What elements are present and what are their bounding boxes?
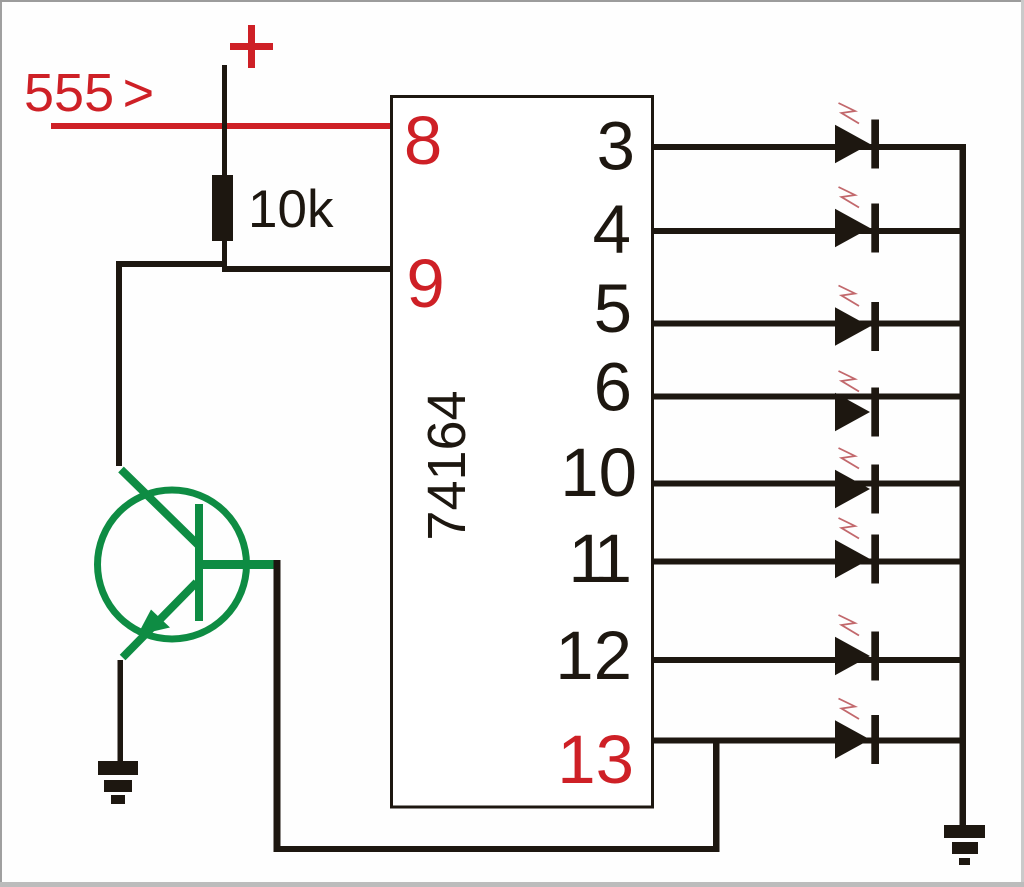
transistor Q1 emitter stroke: [123, 582, 197, 657]
transistor Q1 collector stroke: [121, 470, 198, 545]
transistor Q1 base bar: [195, 504, 203, 621]
wire pin 13: [652, 738, 960, 744]
svg-text:12: 12: [555, 617, 632, 694]
wire: common cathode bus: [960, 144, 967, 825]
border frame left: [0, 0, 2, 887]
wire: junction riser below pin 13: [713, 738, 720, 849]
wire: vertical down to collector: [116, 261, 122, 466]
svg-text:8: 8: [404, 102, 442, 179]
border frame bottom: [0, 882, 1024, 887]
wire pin 12: [652, 657, 960, 663]
wire pin 11: [652, 559, 960, 565]
wire pin 10: [652, 481, 960, 487]
svg-text:4: 4: [593, 191, 631, 268]
svg-text:3: 3: [597, 108, 635, 185]
resistor R1: [212, 175, 233, 241]
power + symbol: [230, 25, 273, 68]
wire: V+ to resistor top: [222, 65, 227, 178]
svg-text:13: 13: [557, 721, 634, 798]
ground (left): [98, 761, 138, 804]
wire: resistor bottom stub: [222, 241, 227, 272]
ground (right): [944, 825, 985, 865]
wire: node to transistor collector (horizontal): [116, 261, 227, 267]
svg-text:555: 555: [24, 63, 114, 123]
svg-text:74164: 74164: [417, 390, 477, 540]
wire pin 4: [652, 228, 960, 234]
transistor Q1 circle: [98, 490, 247, 639]
wire pin 3: [652, 144, 960, 150]
wire: clock line from 555 to pin 8 (red): [51, 123, 391, 129]
LED D6: [835, 518, 879, 584]
wire: node to pin 9 (horizontal): [222, 266, 391, 272]
wire: base down: [274, 560, 281, 852]
wire: bottom run to pin 13: [274, 846, 720, 852]
svg-text:>: >: [123, 63, 155, 123]
svg-text:6: 6: [594, 349, 632, 426]
LED D4: [835, 371, 879, 437]
LED D8: [835, 699, 879, 765]
svg-text:11: 11: [568, 520, 628, 597]
svg-text:5: 5: [594, 270, 632, 347]
transistor Q1 base lead: [199, 560, 278, 569]
IC U1 74164 box: [392, 97, 653, 808]
LED D7: [835, 615, 879, 681]
wire pin 5: [652, 321, 960, 327]
wire pin 6: [652, 394, 960, 400]
LED D1: [835, 103, 879, 169]
LED D5: [835, 448, 879, 514]
svg-text:9: 9: [406, 245, 444, 322]
wire: emitter to ground: [118, 660, 124, 763]
svg-text:10k: 10k: [248, 180, 334, 239]
svg-text:10: 10: [560, 434, 637, 511]
LED D3: [835, 286, 879, 352]
border frame right: [1021, 0, 1024, 887]
LED D2: [835, 187, 879, 253]
border frame top: [0, 0, 1024, 2]
